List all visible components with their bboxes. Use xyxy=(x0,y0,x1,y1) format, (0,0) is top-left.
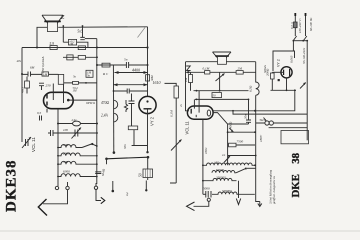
box small row2 left xyxy=(67,55,73,60)
svg-text:7500: 7500 xyxy=(237,140,244,144)
capacitor on bus xyxy=(95,172,101,174)
arrow small mid 4nF xyxy=(224,156,230,163)
wire VY2 down xyxy=(147,109,149,152)
svg-text:50n: 50n xyxy=(244,114,248,119)
svg-text:5n: 5n xyxy=(124,58,128,62)
resistor box on rail 0,1M xyxy=(205,71,210,74)
capacitor C-vert plates xyxy=(129,101,135,104)
wire long y110.8 xyxy=(213,90,295,111)
terminal circle T2 xyxy=(66,186,69,189)
right boundary down xyxy=(306,41,308,141)
junction dots y123.5 xyxy=(57,123,59,125)
resistor 200ohm xyxy=(271,73,275,79)
tube VCL11 stadium xyxy=(44,92,74,108)
svg-text:50: 50 xyxy=(139,173,143,177)
power bar xyxy=(293,40,307,42)
small comp left y118 xyxy=(40,116,42,121)
capacitor C-74 plates xyxy=(28,72,31,77)
box left of tube top xyxy=(58,74,63,84)
svg-text:VY 2: VY 2 xyxy=(150,116,155,126)
tube VCL11b grid bar xyxy=(190,109,192,114)
wire tube cathode down xyxy=(57,109,59,187)
speaker LS2 coil box xyxy=(218,57,227,65)
fuse box outline xyxy=(273,51,295,71)
urdox resistor U950 xyxy=(112,65,114,152)
wire cap bottom to bus xyxy=(85,38,97,40)
tube VY2 dot xyxy=(146,100,148,102)
svg-text:4M5: 4M5 xyxy=(21,87,25,93)
speaker LS2 horn xyxy=(213,52,232,58)
wire main horizontal H2 xyxy=(22,47,148,49)
tube VY2 circle xyxy=(139,96,156,113)
svg-text:200000: 200000 xyxy=(216,176,226,180)
svg-text:5n: 5n xyxy=(73,75,77,79)
svg-text:50n: 50n xyxy=(123,144,127,149)
bottom right box xyxy=(281,131,309,144)
svg-text:250: 250 xyxy=(46,84,51,88)
svg-text:1M: 1M xyxy=(73,89,78,93)
svg-text:50: 50 xyxy=(213,94,217,98)
resistor vertical R2a xyxy=(189,75,193,83)
coil R-row3 xyxy=(203,178,237,180)
variable cap arrow mid xyxy=(219,72,221,90)
tube VY2b circle xyxy=(281,67,292,78)
svg-text:470Ω: 470Ω xyxy=(101,101,109,105)
speaker LS1 base bar xyxy=(44,20,61,22)
power input wires xyxy=(295,15,305,36)
wire rail A top xyxy=(186,61,256,63)
tube VCL11 anode dot xyxy=(67,99,70,102)
junction dot bus y110.8 xyxy=(254,110,256,112)
svg-text:160v: 160v xyxy=(204,147,208,154)
wire cap stub to H1 xyxy=(82,26,84,38)
speaker LS1 coil box xyxy=(47,22,57,32)
faint crease diagonal xyxy=(138,28,146,38)
wire rail3 xyxy=(195,98,249,100)
svg-text:100: 100 xyxy=(63,128,68,132)
tube VCL11 cathode bars xyxy=(46,95,48,106)
wire row2 xyxy=(63,56,97,58)
tube cathode down xyxy=(202,119,204,194)
wire VY2b down xyxy=(286,78,288,90)
wire y74 row xyxy=(22,73,58,75)
capacitor C-f plates xyxy=(51,130,54,136)
wire tube right to bus xyxy=(213,113,228,166)
junction dots bus xyxy=(96,47,98,49)
dot mark xyxy=(278,79,280,81)
svg-text:4Ω: 4Ω xyxy=(102,168,106,173)
wire row3 down arrow xyxy=(238,181,240,198)
wire rail right section xyxy=(271,89,297,91)
wire left col down xyxy=(21,48,23,75)
coil L-A row xyxy=(58,145,82,148)
earth arrow right xyxy=(96,190,101,201)
svg-text:DKE38: DKE38 xyxy=(4,159,20,212)
wire rail B xyxy=(186,71,256,73)
coil L-C row xyxy=(58,161,97,164)
antenna Z squiggle xyxy=(186,66,190,71)
bus V3 top xyxy=(147,27,149,97)
electrolytic box 50 xyxy=(143,169,153,178)
transformer circles xyxy=(265,121,269,125)
switch bar xyxy=(107,157,149,159)
resistor box power xyxy=(294,22,298,28)
terminal circle T3 xyxy=(94,186,97,189)
coil R-row4 xyxy=(212,192,255,194)
wire y91 with cap xyxy=(114,90,148,92)
resistor box on y145 xyxy=(229,143,237,147)
wire anode to bus xyxy=(68,99,97,101)
capacitor C-248 plates xyxy=(246,120,251,122)
resistor box R-b on H2 xyxy=(78,46,85,50)
lamp oval 24v xyxy=(73,121,81,126)
wire box B1 links xyxy=(63,26,88,48)
svg-text:4400: 4400 xyxy=(132,68,140,73)
right bus 255 xyxy=(256,62,259,196)
svg-text:60000: 60000 xyxy=(216,168,224,172)
variable capacitor C-var arrow xyxy=(75,130,78,137)
svg-text:1M: 1M xyxy=(43,72,48,76)
svg-text:DKE: DKE xyxy=(290,174,302,197)
wire y133 row xyxy=(48,132,97,134)
antenna arrow right schematic xyxy=(194,202,209,207)
tube pin top xyxy=(194,91,199,113)
box 0,1/5n left of bus xyxy=(86,70,93,77)
svg-text:5000: 5000 xyxy=(203,187,210,191)
svg-text:500000: 500000 xyxy=(222,189,232,193)
resistor box R-a on H2 xyxy=(50,46,57,50)
tube inner tick xyxy=(195,115,197,117)
tube pin tick bottom xyxy=(46,109,48,113)
arrow at right boundary xyxy=(300,83,306,89)
scan artifact bottom line xyxy=(0,230,360,232)
svg-text:2M: 2M xyxy=(238,67,243,71)
switch contacts power xyxy=(293,36,307,41)
svg-text:180V: 180V xyxy=(259,134,263,142)
svg-text:VCL 11: VCL 11 xyxy=(31,137,36,152)
box paper cap xyxy=(212,93,222,98)
box 5ohm bottom xyxy=(128,126,137,130)
left vertical top xyxy=(185,62,187,98)
svg-text:24v: 24v xyxy=(72,118,77,122)
resistor box on bus xyxy=(146,75,150,81)
svg-text:VCL 11: VCL 11 xyxy=(185,121,190,135)
antenna arrow left xyxy=(43,190,68,204)
switch R-sw xyxy=(236,169,245,173)
tube VCL11 grid pins xyxy=(53,84,63,104)
junction dot H2/V37 xyxy=(36,47,38,49)
svg-text:400Ω: 400Ω xyxy=(229,121,233,129)
speaker pin P1 xyxy=(112,181,114,191)
terminal circle T1 xyxy=(55,186,58,189)
main bus V2 xyxy=(96,39,98,184)
junction dot y74 xyxy=(21,73,23,75)
svg-text:100-240 V~: 100-240 V~ xyxy=(298,18,302,33)
svg-text:38: 38 xyxy=(290,152,302,163)
transformer wires xyxy=(233,111,307,128)
resistor box RC on H4 xyxy=(102,63,110,67)
tube left pin xyxy=(186,98,190,111)
resistor box R-c below H2 xyxy=(78,56,85,60)
arrow down right bus xyxy=(256,196,260,202)
resistor box on y82.9 xyxy=(73,81,79,84)
svg-text:1n: 1n xyxy=(222,153,226,157)
box 1M grid leak xyxy=(69,39,77,45)
capacitor C-91 plates xyxy=(127,89,129,94)
speaker LS1 horn xyxy=(42,15,63,23)
wire y155.5 row xyxy=(228,155,256,157)
variable cap left edge xyxy=(26,139,29,146)
box 1M on y74 xyxy=(42,72,49,76)
capacitor C-e plates xyxy=(39,83,44,86)
tube VY2b bars xyxy=(284,69,290,76)
svg-text:100: 100 xyxy=(214,161,219,165)
wire speaker left xyxy=(37,27,47,47)
arrow onto y132 xyxy=(229,128,233,132)
wire diag branch to cap xyxy=(228,123,249,125)
svg-text:9PW11: 9PW11 xyxy=(86,101,96,105)
tube VCL11b stadium xyxy=(187,106,213,119)
svg-text:60-100 Hz: 60-100 Hz xyxy=(309,17,313,31)
svg-text:6M: 6M xyxy=(30,66,35,70)
capacitor C-h4 plates xyxy=(126,62,128,68)
tube VY2 bar xyxy=(144,108,152,110)
resistor vertical R-d left xyxy=(26,77,28,82)
power to fuse box xyxy=(292,41,294,51)
wire y82.9 row xyxy=(64,82,97,84)
annotation arrow 4400 xyxy=(115,72,148,74)
svg-text:300: 300 xyxy=(63,160,68,164)
svg-text:300: 300 xyxy=(63,143,68,147)
speaker pin P2 xyxy=(145,181,147,190)
caps row4 left xyxy=(206,191,211,198)
coil R-row1 xyxy=(203,163,256,165)
wire T2 stub xyxy=(67,182,69,186)
wire y123.5 row xyxy=(58,123,97,125)
resistor box on rail 2M xyxy=(236,71,243,75)
switch S-A xyxy=(82,144,92,148)
annotation arrow 1610 xyxy=(114,84,148,86)
svg-text:5n: 5n xyxy=(87,74,91,78)
tube VCL11b inner ellipse xyxy=(207,110,210,116)
svg-text:2M: 2M xyxy=(184,77,188,82)
coil L-B row xyxy=(58,153,97,156)
resistor vertical right R-e xyxy=(174,86,178,98)
svg-text:NS 100-240v: NS 100-240v xyxy=(302,47,306,65)
svg-text:VY 2: VY 2 xyxy=(277,59,281,67)
svg-text:6300: 6300 xyxy=(63,170,70,174)
speaker LS2 base bar xyxy=(215,55,229,57)
svg-text:2000: 2000 xyxy=(63,151,70,155)
junction dot H2/bus147 xyxy=(146,46,148,48)
wire y145 row xyxy=(228,144,255,146)
capacitor C-top plates xyxy=(80,37,85,39)
svg-text:5Ω: 5Ω xyxy=(260,118,265,122)
heater filament squiggle xyxy=(124,100,127,112)
junction dots coil rows xyxy=(57,147,59,149)
svg-text:R C: R C xyxy=(102,72,109,76)
wire rail2 xyxy=(194,90,249,92)
power top terminal blobs xyxy=(295,13,305,16)
coil R-row2 xyxy=(212,170,236,172)
wire H4 with cap xyxy=(97,64,148,66)
potentiometer arrow right xyxy=(171,140,182,151)
wire y132 row xyxy=(228,131,255,133)
wire speaker right to top bus xyxy=(58,26,147,29)
coil L-D row xyxy=(58,174,97,177)
svg-text:30Ω: 30Ω xyxy=(150,75,154,81)
wire into VY2b xyxy=(272,71,283,73)
terminal circle R-T1 xyxy=(207,198,210,201)
svg-text:40v: 40v xyxy=(17,59,22,63)
svg-text:50mA: 50mA xyxy=(263,64,267,73)
svg-text:geöffnet. Langwelle zu: geöffnet. Langwelle zu xyxy=(272,176,276,204)
arrow onto transformer xyxy=(264,118,267,122)
svg-text:1M: 1M xyxy=(69,42,73,46)
